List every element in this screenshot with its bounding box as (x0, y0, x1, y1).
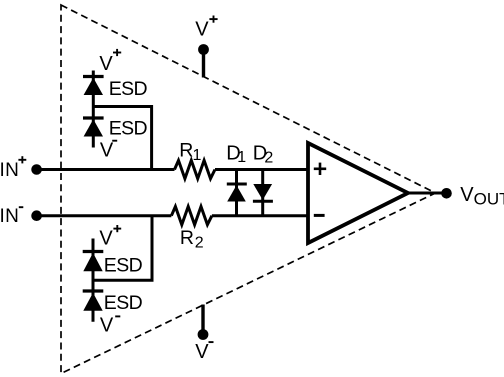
label IN- (0, 206, 23, 227)
svg-text:ESD: ESD (104, 254, 143, 276)
svg-text:R: R (180, 227, 194, 249)
svg-text:R: R (179, 139, 193, 161)
node VOUT (terminal dot) (441, 188, 452, 199)
upper ESD cell: stack vertical wire (92, 71, 95, 148)
label VOUT (460, 184, 504, 208)
node IN- (terminal dot) (31, 210, 42, 221)
wire V- terminal to boundary (201, 305, 204, 333)
label D2 (253, 143, 274, 167)
V+ supply terminal (top) (198, 44, 209, 55)
svg-text:IN: IN (0, 160, 19, 181)
wire junction from upper ESD cell to IN+ line (93, 107, 151, 170)
wire IN- from R2 to op-amp - input (212, 214, 308, 217)
svg-text:ESD: ESD (109, 118, 148, 140)
diode D2 (anode on IN+ line, cathode on IN- line) (253, 170, 273, 216)
svg-text:V: V (195, 341, 209, 363)
svg-text:ESD: ESD (109, 78, 148, 100)
wire output from op-amp to VOUT (409, 192, 444, 195)
svg-text:V: V (100, 314, 114, 336)
label V- (lower ESD cell) (100, 314, 120, 336)
label V+ (lower ESD cell) (99, 225, 121, 249)
svg-text:V: V (100, 139, 114, 161)
lower ESD cell: stack vertical wire (92, 239, 95, 322)
diode D1 (anode on IN- line, cathode on IN+ line) (227, 170, 247, 216)
label D1 (226, 143, 246, 166)
svg-text:IN: IN (0, 206, 19, 227)
wire IN+ from terminal to R1 (37, 168, 175, 171)
op-amp IC boundary (dashed triangle outline) (61, 5, 436, 374)
op-amp + input mark (314, 163, 326, 175)
svg-text:OUT: OUT (474, 189, 504, 208)
wire junction from lower ESD cell to IN- line (93, 216, 152, 281)
op-amp U1 (triangle) (308, 143, 408, 243)
resistor R2 (171, 207, 212, 225)
label V- (bottom) (195, 341, 213, 363)
svg-text:V: V (195, 19, 209, 41)
label V+ (top) (195, 16, 217, 41)
svg-text:V: V (99, 53, 113, 75)
label IN+ (0, 156, 26, 181)
svg-text:ESD: ESD (104, 292, 143, 314)
wire IN- from terminal to R2 (37, 214, 172, 217)
svg-text:1: 1 (237, 149, 246, 166)
svg-text:1: 1 (193, 147, 202, 164)
label V+ (upper ESD cell) (99, 49, 121, 75)
ESD diode (upper cell, to V-): cathode bar + triangle (83, 118, 104, 137)
label R2 (180, 227, 204, 251)
label V- (upper ESD cell) (100, 139, 117, 161)
ESD diode (upper cell, to V+): cathode bar + triangle (83, 77, 104, 96)
resistor R1 (175, 160, 216, 178)
wire IN+ from R1 to op-amp + input (215, 168, 308, 171)
node IN+ (terminal dot) (31, 164, 42, 175)
svg-text:2: 2 (195, 235, 204, 252)
svg-text:V: V (460, 184, 474, 206)
label R1 (179, 139, 201, 163)
ESD diode (lower cell, to V-): cathode bar + triangle (83, 291, 104, 311)
op-amp - input mark (314, 214, 325, 217)
wire V+ terminal to boundary (202, 52, 205, 78)
V- supply terminal (bottom) (198, 329, 209, 340)
svg-text:2: 2 (264, 149, 273, 166)
svg-text:V: V (99, 227, 113, 249)
ESD diode (lower cell, to V+): cathode bar + triangle (83, 252, 104, 272)
